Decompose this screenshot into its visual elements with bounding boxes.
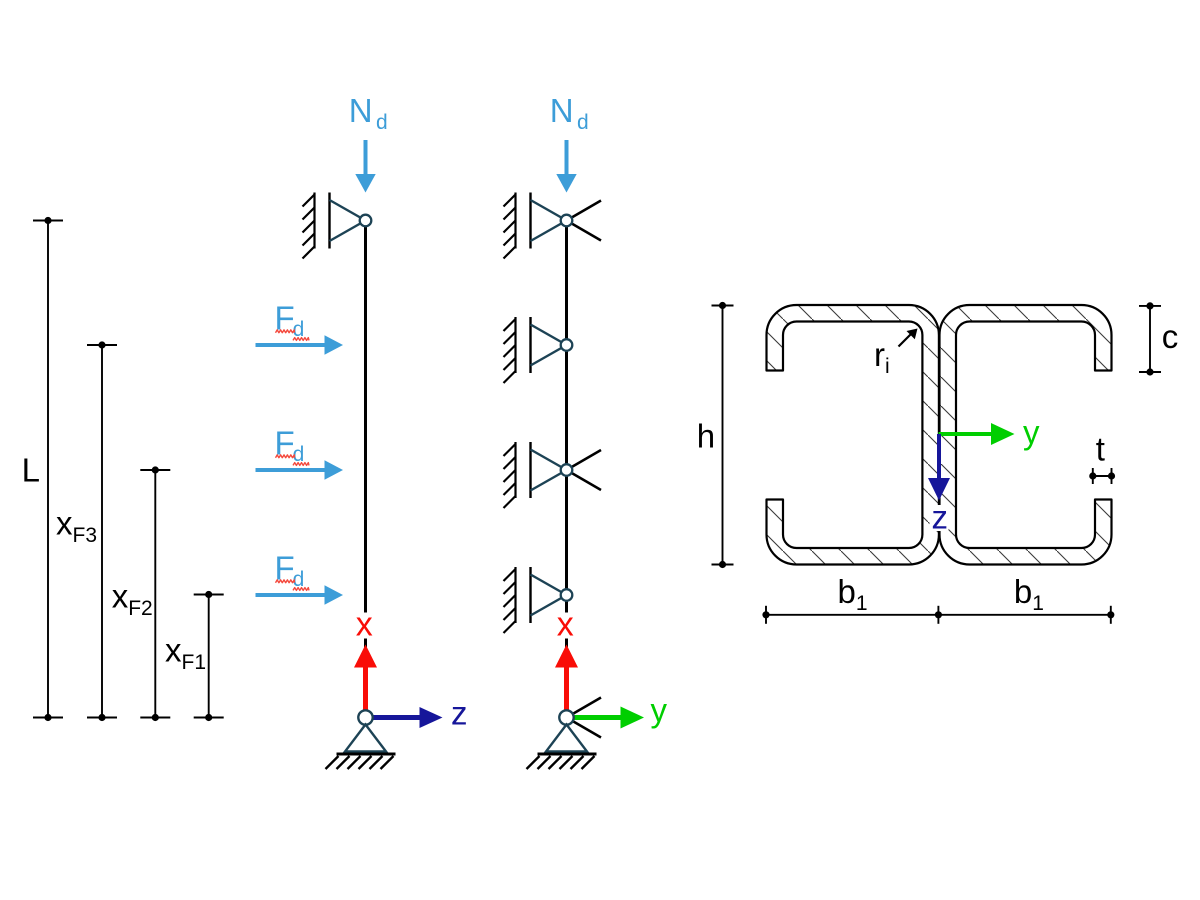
load F_d level 4: force arrow bbox=[256, 593, 326, 597]
column 2 support level 4: wall line bbox=[514, 567, 516, 623]
dim L: dimension line bbox=[47, 221, 49, 718]
column 1 base support: ground hatching bbox=[326, 756, 394, 769]
column 2 top support: plate line bbox=[529, 193, 531, 249]
svg-text:c: c bbox=[1162, 318, 1179, 355]
load F_d level 3: spellcheck squiggles bbox=[276, 455, 295, 458]
column 2 top support: wall line bbox=[514, 193, 516, 249]
column 2 base support: ground line bbox=[538, 753, 597, 756]
load F_d level 2: spellcheck squiggles bbox=[276, 330, 295, 333]
load F_d level 3: force arrow bbox=[256, 468, 326, 472]
svg-text:h: h bbox=[697, 418, 715, 455]
section y axis arrow bbox=[939, 432, 993, 436]
column 1: z axis arrow bbox=[373, 715, 421, 720]
column 2: white box behind x label bbox=[555, 613, 579, 639]
column 2 top support: triangle bbox=[531, 200, 567, 241]
column 2 support level 3: plate line bbox=[529, 442, 531, 498]
column 1 top support: plate line bbox=[328, 193, 330, 249]
column 2 support level 2: wall line bbox=[514, 317, 516, 373]
column 2: member line bbox=[565, 221, 568, 718]
column 2 support level 2: plate line bbox=[529, 317, 531, 373]
dim b1 right: dimension line bbox=[938, 614, 1110, 616]
svg-text:y: y bbox=[651, 692, 668, 729]
dim h: dimension line bbox=[722, 306, 724, 565]
column 2 top support: pin circle bbox=[561, 215, 573, 227]
column 1: member line bbox=[364, 221, 367, 718]
cross section: right channel bbox=[940, 305, 1112, 565]
column 2 support level 4: plate line bbox=[529, 567, 531, 623]
column 2: axial load arrow bbox=[565, 140, 569, 175]
column 2 support level 4: triangle bbox=[531, 575, 567, 616]
column 2 support level 3: lateral X arms bbox=[567, 450, 602, 470]
column 1: white box behind x label bbox=[354, 613, 378, 639]
column 2 base support: triangle bbox=[546, 725, 587, 752]
column 2 support level 2: pin circle bbox=[561, 339, 573, 351]
load F_d level 4: spellcheck squiggles bbox=[276, 580, 295, 583]
dim c: dimension line bbox=[1149, 306, 1151, 372]
dim b1 left: dimension line bbox=[766, 614, 938, 616]
column 2 support level 3: wall line bbox=[514, 442, 516, 498]
r_i pointer arrow bbox=[899, 334, 912, 347]
dim x_F2: dimension line bbox=[154, 470, 156, 718]
svg-text:L: L bbox=[22, 451, 40, 488]
column 2 support level 3: wall hatching bbox=[504, 444, 516, 508]
section z axis arrow bbox=[937, 434, 941, 479]
column 1 base support: triangle bbox=[345, 725, 386, 752]
dim t: dimension line bbox=[1093, 475, 1112, 477]
column 1 top support: wall line bbox=[313, 193, 315, 249]
column 2 base pin circle bbox=[559, 710, 573, 724]
column 1: x axis arrow bbox=[363, 666, 368, 712]
cross section: left channel bbox=[767, 305, 939, 565]
column 1 top support: wall hatching bbox=[303, 195, 315, 259]
column 2: x axis arrow bbox=[564, 666, 569, 712]
svg-text:t: t bbox=[1096, 431, 1105, 468]
column 1 top support: pin circle bbox=[360, 215, 372, 227]
column 1 base support: ground line bbox=[337, 753, 396, 756]
column 2: y axis arrow bbox=[574, 715, 622, 720]
column 2 top support: wall hatching bbox=[504, 195, 516, 259]
column 2 support level 2: wall hatching bbox=[504, 319, 516, 383]
white box behind section z label bbox=[930, 505, 949, 531]
column 2 top support: lateral X arms bbox=[567, 201, 602, 221]
dim x_F1: dimension line bbox=[208, 595, 210, 718]
column 2 base: lateral X arms bbox=[567, 698, 602, 718]
svg-text:y: y bbox=[1023, 414, 1040, 451]
load F_d level 2: force arrow bbox=[256, 343, 326, 347]
column 2 support level 4: pin circle bbox=[561, 589, 573, 601]
column 2 support level 3: pin circle bbox=[561, 464, 573, 476]
svg-text:z: z bbox=[932, 498, 949, 535]
column 1 top support: triangle bbox=[330, 200, 366, 241]
column 2 support level 4: wall hatching bbox=[504, 569, 516, 633]
column 2 support level 3: triangle bbox=[531, 450, 567, 491]
column 2 base support: ground hatching bbox=[527, 756, 595, 769]
svg-text:x: x bbox=[557, 605, 574, 643]
svg-text:z: z bbox=[451, 695, 468, 732]
column 2 support level 2: triangle bbox=[531, 325, 567, 366]
column 1: axial load arrow bbox=[364, 140, 368, 175]
svg-text:x: x bbox=[356, 605, 373, 643]
dim x_F3: dimension line bbox=[101, 345, 103, 718]
column 1 base pin circle bbox=[358, 710, 372, 724]
